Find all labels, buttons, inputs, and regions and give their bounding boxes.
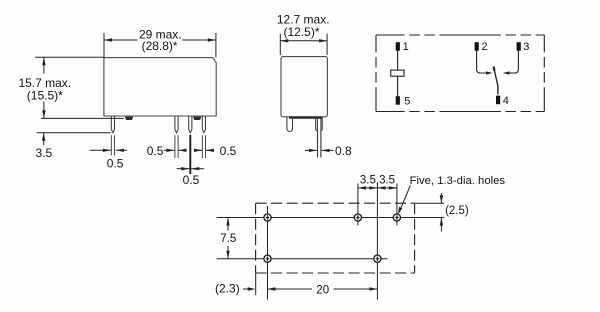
svg-text:(28.8)*: (28.8)* [142, 39, 178, 53]
svg-text:20: 20 [316, 284, 329, 296]
svg-text:3.5,3.5: 3.5,3.5 [360, 174, 395, 186]
dimension 2.5 arrows [440, 193, 442, 232]
svg-text:Five, 1.3-dia. holes: Five, 1.3-dia. holes [410, 175, 506, 187]
bottom row centerline [217, 258, 388, 260]
dimension 12.7 max line and arrows [280, 40, 327, 42]
dimension 0.5 left pin arrows [90, 149, 127, 151]
svg-text:5: 5 [404, 95, 410, 107]
wire terminal 2 with arrow [477, 50, 487, 73]
hole top-middle [354, 214, 361, 221]
dimension 3.5 3.5 line and arrows [358, 187, 397, 189]
dimension 29 max extension lines [104, 33, 216, 57]
wire terminal 3 with arrow [509, 50, 518, 73]
extension lines below pin 2 [175, 135, 178, 158]
dimension 15.7 max extension line top [35, 56, 104, 58]
hole bottom-right [374, 255, 381, 262]
front view relay body [104, 58, 216, 116]
svg-text:0.8: 0.8 [335, 144, 352, 158]
front view pin 2 [175, 116, 178, 133]
hole column line bottom-right [376, 184, 378, 300]
hole top-left [264, 214, 271, 221]
switch blade contact tip [493, 67, 496, 71]
switch blade terminal 4 [494, 71, 498, 95]
dimension 15.7 max line and arrows [43, 57, 45, 118]
svg-text:(2.3): (2.3) [215, 281, 240, 295]
side view relay body [281, 57, 327, 117]
side view pin base [316, 117, 318, 131]
terminal 3 [517, 42, 521, 51]
svg-text:0.5: 0.5 [183, 173, 200, 187]
svg-text:(12.5)*: (12.5)* [283, 25, 319, 39]
front view pin 3 (middle) [189, 116, 192, 133]
dimension 7.5 line and arrows [227, 218, 229, 259]
dimension 2.5 extension line [415, 202, 445, 204]
svg-text:4: 4 [503, 95, 509, 107]
terminal arrangement box border [376, 35, 544, 112]
terminal 2 [475, 42, 479, 51]
wire coil to terminal 5 [397, 76, 399, 96]
front view pin 4 (right) [202, 116, 205, 133]
extension lines below pin 1 [111, 135, 114, 155]
svg-text:3.5: 3.5 [36, 146, 53, 160]
terminal 1 [396, 42, 400, 51]
coil symbol [391, 70, 404, 76]
pcb layout dashed outline [256, 203, 415, 273]
dimension 29 max line and arrows [104, 39, 216, 41]
svg-text:0.5: 0.5 [107, 156, 124, 170]
svg-text:2: 2 [482, 41, 488, 53]
extension lines below pin 4 [202, 135, 205, 158]
hole column line top-right [396, 184, 398, 226]
hole column line left [267, 206, 269, 300]
dimension 20 line and arrows [267, 288, 312, 290]
dimension 0.5 right group right [195, 149, 202, 151]
front view right mounting peg [193, 117, 201, 120]
extension below rect left edge [255, 273, 257, 295]
hole top-right [393, 214, 400, 221]
svg-text:0.5: 0.5 [220, 144, 237, 158]
svg-text:(15.5)*: (15.5)* [27, 88, 63, 102]
dimension 15.7 max extension line bottom (seating plane) [41, 117, 124, 119]
svg-text:3: 3 [523, 41, 529, 53]
side view mounting peg [287, 117, 293, 132]
front view pin 1 (left) [111, 116, 114, 133]
svg-text:0.5: 0.5 [147, 144, 164, 158]
top row centerline [217, 217, 444, 219]
dimension 0.5 middle pin [177, 168, 190, 170]
leader five holes [400, 186, 411, 212]
front view left mounting peg [125, 117, 133, 120]
dimension 3.5 arrow [43, 133, 45, 145]
extension line below pin 3 (thick) [189, 135, 191, 174]
dimension 0.8 arrows [305, 149, 317, 151]
terminal 4 [496, 96, 500, 105]
terminal 5 [396, 96, 400, 105]
dimension 12.7 max extension lines [280, 34, 327, 55]
dimension 3.5 pin length extension line [37, 132, 111, 134]
svg-text:1: 1 [403, 41, 409, 53]
side view bottom thick edge [289, 116, 322, 118]
wire terminal 1 to coil [397, 51, 399, 70]
hole bottom-left [264, 255, 271, 262]
side view pin [318, 131, 321, 158]
hole column line mid-top [357, 184, 359, 226]
svg-text:7.5: 7.5 [220, 233, 236, 245]
svg-text:(2.5): (2.5) [445, 205, 469, 217]
